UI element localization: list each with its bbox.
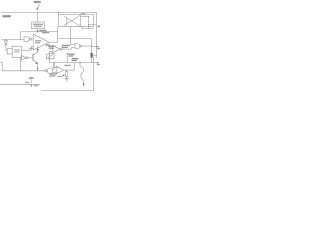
- logic gate G2 (NAND mirrored): [45, 70, 47, 72]
- label right of A2: [62, 45, 70, 46]
- wire G3 upper input from logic line: [69, 39, 71, 45]
- wire down to pad: [91, 39, 93, 53]
- wire S-curve output current path: [79, 63, 81, 67]
- wire A3 output: [63, 69, 74, 71]
- label below-left of A3: [49, 73, 57, 74]
- comparator A1 triangle: [33, 34, 49, 50]
- wire inverter to base: [28, 57, 33, 59]
- pin GND with arrow: [29, 77, 34, 79]
- label inside comparator: [35, 40, 41, 41]
- label sense text right: [72, 58, 79, 59]
- wire A2 lower input loop: [50, 50, 53, 52]
- diode D1: [4, 41, 7, 45]
- wire OSC box down to loop: [20, 58, 22, 71]
- box top-right output stage: [59, 15, 94, 29]
- logic gate G3 (AND): [75, 44, 80, 49]
- wire bottom-left loop: [0, 61, 2, 63]
- transistor Q1 NPN: [32, 54, 34, 61]
- label above A3 output: [64, 65, 70, 66]
- wire bottom border left segment (GND rail): [0, 84, 40, 86]
- label pin right of border: [97, 26, 100, 28]
- label part number top-left: [3, 15, 11, 17]
- regulator box REG: [32, 22, 45, 29]
- oscillator box OSC: [12, 46, 21, 57]
- error amp A3 (gm): [56, 66, 63, 74]
- wire vertical from top-right box to output node: [57, 27, 59, 43]
- label inside REG box: [33, 24, 43, 25]
- wire horizontal logic line: [58, 38, 92, 40]
- wire emitter rail y62.5: [50, 62, 94, 64]
- wire drop to NAND input: [20, 32, 22, 40]
- current source arrow I1: [37, 46, 39, 50]
- wire G2 inputs: [52, 68, 54, 70]
- logic gate G1 (NAND) left: [24, 37, 29, 42]
- pin FB stub right: [94, 62, 99, 64]
- error amp A2 (FB comparator): [52, 45, 60, 53]
- wire A2 upper input: [48, 46, 52, 48]
- pin VIN arrow: [38, 4, 40, 8]
- label left of transistor: [29, 48, 34, 49]
- wire left input line: [1, 39, 24, 41]
- wire rail into box: [58, 12, 60, 14]
- capacitor stub above rail: [67, 53, 69, 62]
- wire right border upper: [96, 12, 98, 58]
- label VIN text: [34, 1, 41, 3]
- label above comparator: [42, 32, 49, 33]
- wire bottom border right segment: [41, 90, 94, 92]
- compensation R: [66, 70, 68, 72]
- wire diode to sync box: [5, 45, 7, 51]
- label FB left: [46, 44, 50, 46]
- wire A2 output to gate G3: [62, 48, 71, 50]
- label driver text below comparator: [48, 46, 55, 47]
- pin stub box to border: [89, 24, 97, 26]
- label right of cap stub: [69, 54, 75, 55]
- wire inside-box vertical: [69, 27, 71, 39]
- wire gate G1 output to comparator: [31, 38, 33, 40]
- label 2.3V supply: [39, 30, 46, 32]
- wire right border lower: [93, 57, 95, 91]
- label GND: [25, 82, 29, 83]
- inverter U2: [21, 55, 25, 60]
- transistor U3 inside box (left pointing triangle): [71, 15, 80, 26]
- wire REG output down with arrow: [37, 29, 39, 31]
- wire OSC to comparator lower input: [22, 49, 32, 51]
- small slashed box (anti-sat): [47, 53, 54, 58]
- label small inside box: [81, 13, 85, 14]
- wire G3 output to pad node: [82, 45, 92, 47]
- sync box small: [7, 48, 12, 54]
- transistor pad Q2 (power switch): [91, 53, 93, 58]
- label pin right outside: [97, 48, 100, 49]
- wire comparator output: [49, 41, 57, 43]
- wire 2.3V distribution rail: [21, 31, 58, 33]
- wire inside-box vertical right: [88, 16, 90, 28]
- label inside OSC: [14, 49, 20, 50]
- ground symbol: [64, 78, 68, 80]
- wire top supply rail VIN: [1, 11, 97, 13]
- leader arc arrow: [57, 75, 64, 76]
- wire node to border pin: [92, 46, 99, 48]
- wire VIN rail to REG box: [37, 12, 39, 22]
- wire emitter down: [37, 64, 39, 71]
